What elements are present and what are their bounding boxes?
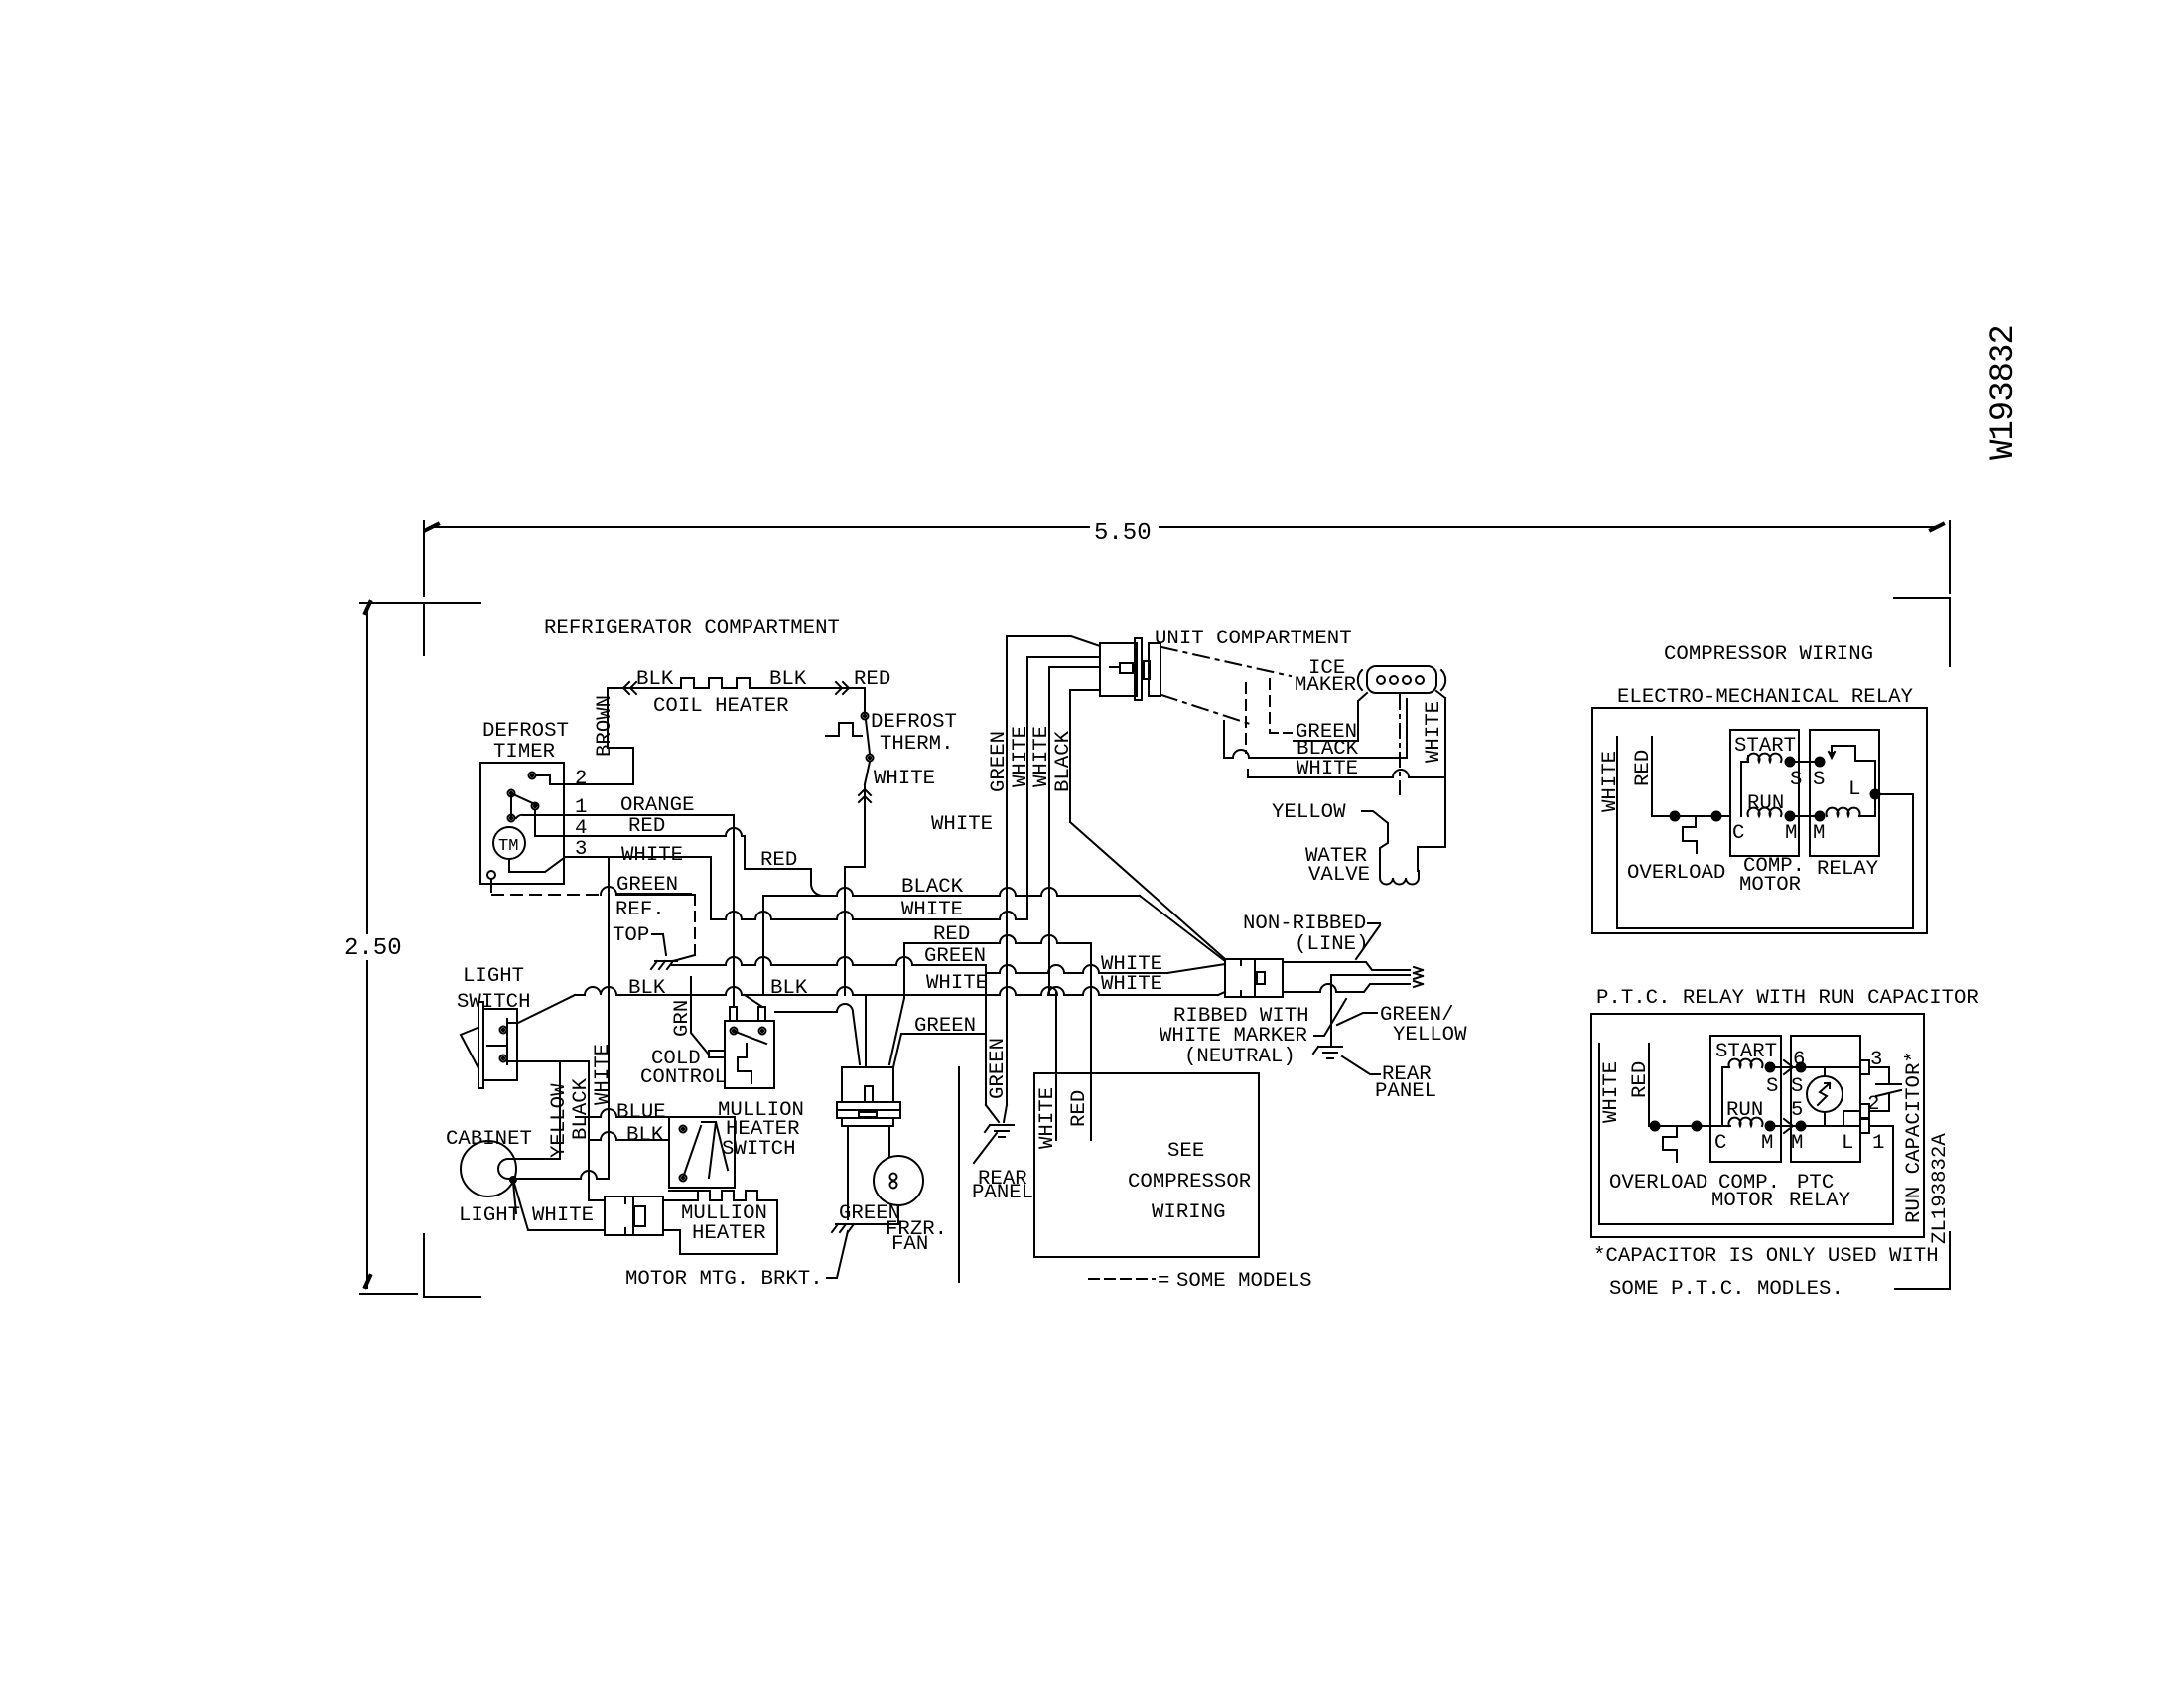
PTC wire S to relay xyxy=(1770,1066,1801,1068)
wire RED row xyxy=(904,935,1091,943)
wire fan motor bottom lead xyxy=(852,1205,898,1224)
corner mark top-right xyxy=(1894,598,1950,666)
svg-text:RED: RED xyxy=(1629,1061,1652,1098)
defrost thermostat terminal top xyxy=(862,713,869,720)
svg-text:TIMER: TIMER xyxy=(493,741,555,764)
svg-text:WHITE: WHITE xyxy=(621,844,683,867)
wire line cord top xyxy=(1283,962,1410,970)
PTC run winding xyxy=(1729,1118,1763,1126)
PTC terminal M relay xyxy=(1797,1122,1806,1131)
svg-text:TM: TM xyxy=(498,837,518,856)
wire GREEN drop to rear panel ground xyxy=(985,965,987,1105)
svg-text:L: L xyxy=(1848,778,1860,801)
svg-text:5: 5 xyxy=(1791,1099,1803,1122)
water valve coil xyxy=(1380,871,1419,885)
svg-text:2: 2 xyxy=(575,768,587,790)
cabinet light bulb xyxy=(461,1141,516,1196)
wire GREEN row xyxy=(671,957,986,965)
mullion heater plug xyxy=(605,1196,633,1235)
EM start winding left lead xyxy=(1741,762,1748,816)
svg-text:SEE: SEE xyxy=(1167,1140,1204,1163)
wire WHITE row 4 to line plug xyxy=(988,965,1167,973)
EM start winding xyxy=(1748,754,1782,762)
svg-text:BLK: BLK xyxy=(769,668,807,691)
wire WHITE cabinet light to mullion plug xyxy=(513,1180,605,1230)
cold control terminal left xyxy=(731,1028,738,1035)
svg-text:M: M xyxy=(1813,822,1825,845)
svg-text:OVERLOAD: OVERLOAD xyxy=(1627,862,1725,885)
EM relay outer box xyxy=(1592,708,1927,933)
wire RED pin4 xyxy=(535,810,823,896)
svg-text:COMPRESSOR WIRING: COMPRESSOR WIRING xyxy=(1664,643,1873,666)
svg-text:HEATER: HEATER xyxy=(692,1222,766,1245)
wire BLK to mullion switch xyxy=(589,1132,669,1140)
harness elbow to black wire xyxy=(1223,721,1225,757)
svg-text:MOTOR: MOTOR xyxy=(1711,1190,1773,1212)
svg-text:2.50: 2.50 xyxy=(344,935,402,962)
wire WHITE drop into compressor box xyxy=(1055,993,1057,1140)
PTC wire M to relay xyxy=(1770,1125,1801,1127)
svg-text:WHITE: WHITE xyxy=(1101,973,1162,996)
cold control terminal right xyxy=(759,1028,766,1035)
PTC pin 1 xyxy=(1860,1119,1869,1133)
PTC overload protector xyxy=(1663,1126,1677,1162)
svg-text:BLK: BLK xyxy=(636,668,674,691)
PTC terminal S relay xyxy=(1797,1063,1806,1072)
svg-text:LIGHT: LIGHT xyxy=(463,965,524,988)
PTC wire M to pin 1 xyxy=(1801,1125,1860,1127)
EM relay coil xyxy=(1827,808,1860,816)
svg-text:M: M xyxy=(1791,1132,1803,1155)
svg-text:REF.: REF. xyxy=(615,899,665,921)
PTC terminal M motor xyxy=(1766,1122,1775,1131)
svg-text:WHITE: WHITE xyxy=(1010,726,1032,787)
wire from light switch top terminal xyxy=(507,995,575,1023)
svg-text:NON-RIBBED: NON-RIBBED xyxy=(1243,913,1366,935)
svg-text:GREEN: GREEN xyxy=(988,731,1011,792)
svg-text:COIL HEATER: COIL HEATER xyxy=(653,695,789,718)
svg-text:WHITE: WHITE xyxy=(1600,1061,1623,1123)
harness dashed diagonal top xyxy=(1161,647,1291,676)
timer terminal contact C xyxy=(508,815,515,822)
svg-text:RELAY: RELAY xyxy=(1789,1190,1851,1212)
svg-text:ELECTRO-MECHANICAL RELAY: ELECTRO-MECHANICAL RELAY xyxy=(1617,686,1914,709)
svg-text:BROWN: BROWN xyxy=(594,695,616,757)
timer terminal contact B xyxy=(532,803,539,810)
PTC run capacitor symbol xyxy=(1876,1083,1901,1085)
svg-text:CABINET: CABINET xyxy=(446,1128,532,1151)
mullion heater switch box xyxy=(669,1117,735,1188)
EM terminal S motor xyxy=(1786,758,1795,767)
mullion switch terminal top xyxy=(680,1126,687,1133)
cold control box xyxy=(725,1021,774,1088)
svg-text:WHITE: WHITE xyxy=(592,1044,614,1105)
EM terminal M relay xyxy=(1816,812,1825,821)
EM junction dot 2 xyxy=(1712,812,1721,821)
dimension extension line right xyxy=(1949,521,1951,593)
wire YELLOW light switch to cabinet light xyxy=(507,1061,589,1159)
cold control switch arm xyxy=(736,1032,766,1044)
wire cabinet light top xyxy=(508,1158,559,1160)
svg-text:WHITE: WHITE xyxy=(1599,751,1622,812)
svg-text:YELLOW: YELLOW xyxy=(548,1083,571,1158)
svg-text:GREEN: GREEN xyxy=(924,945,986,968)
svg-text:L: L xyxy=(1842,1132,1853,1155)
EM comp motor box xyxy=(1730,730,1799,856)
svg-text:LIGHT: LIGHT xyxy=(459,1204,520,1227)
harness dashed vertical to water valve xyxy=(1399,695,1401,794)
EM relay box xyxy=(1810,730,1879,856)
wire line cord bottom xyxy=(1283,984,1410,992)
EM terminal M motor xyxy=(1786,812,1795,821)
svg-text:ZL193832A: ZL193832A xyxy=(1929,1133,1952,1244)
wire GREEN/YELLOW drop xyxy=(1330,975,1332,1047)
timer case ground circle xyxy=(487,871,495,879)
svg-text:RED: RED xyxy=(1632,750,1655,786)
svg-text:SOME MODELS: SOME MODELS xyxy=(1176,1270,1312,1293)
svg-text:FAN: FAN xyxy=(891,1233,928,1256)
ground ref top chassis xyxy=(655,960,677,962)
svg-text:MOTOR: MOTOR xyxy=(1739,874,1801,897)
mullion switch arm xyxy=(684,1126,701,1175)
PTC wire capacitor to pin 2 xyxy=(1869,1093,1889,1111)
svg-text:(NEUTRAL): (NEUTRAL) xyxy=(1184,1046,1296,1068)
wire dashed drop to ref-top ground xyxy=(694,895,696,955)
svg-text:WHITE: WHITE xyxy=(532,1204,594,1227)
svg-text:*CAPACITOR IS ONLY USED WITH: *CAPACITOR IS ONLY USED WITH xyxy=(1593,1245,1939,1268)
wire cabinet light bottom xyxy=(510,1171,609,1179)
EM wire RED xyxy=(1652,737,1730,816)
svg-text:S: S xyxy=(1790,769,1802,791)
fan motor circle xyxy=(874,1156,923,1205)
ground rear panel right xyxy=(1318,1046,1342,1048)
PTC thermistor leads xyxy=(1824,1067,1826,1076)
svg-text:5.50: 5.50 xyxy=(1094,520,1152,547)
defrost thermostat terminal bottom xyxy=(867,755,874,762)
svg-text:RED: RED xyxy=(854,668,890,691)
EM terminal L xyxy=(1871,790,1880,799)
wire BLACK bus xyxy=(1070,690,1100,822)
PTC entry mark 5 xyxy=(1784,1119,1793,1133)
svg-text:DEFROST: DEFROST xyxy=(871,711,957,734)
wire ORANGE pin1 xyxy=(516,815,524,818)
wire BLUE to mullion switch xyxy=(576,1109,669,1117)
defrost timer box xyxy=(480,763,564,884)
svg-text:SWITCH: SWITCH xyxy=(722,1138,796,1161)
svg-text:BLUE: BLUE xyxy=(616,1101,666,1124)
cold control left tab xyxy=(709,1051,725,1057)
ground motor mounting bracket xyxy=(836,1223,858,1225)
mullion switch flag xyxy=(702,1122,728,1178)
wire BLACK row xyxy=(763,888,1140,896)
svg-text:VALVE: VALVE xyxy=(1308,864,1370,887)
corner mark top-left xyxy=(360,603,480,655)
PTC wire pin2 internal xyxy=(1843,1111,1860,1126)
svg-text:BLACK: BLACK xyxy=(1052,730,1075,792)
unit connector body xyxy=(1100,643,1137,696)
wire WHITE row xyxy=(711,912,1027,919)
dimension line 5.50 horizontal xyxy=(430,526,1089,528)
svg-text:WHITE: WHITE xyxy=(926,972,988,995)
PTC junction dot 2 xyxy=(1693,1122,1702,1131)
power plug body xyxy=(1225,959,1255,997)
svg-text:RED: RED xyxy=(1068,1090,1091,1127)
svg-text:RED: RED xyxy=(933,923,970,946)
wire riser black row to blk wire xyxy=(762,896,764,995)
PTC wire RED xyxy=(1649,1044,1730,1126)
svg-text:C: C xyxy=(1714,1132,1726,1155)
svg-text:ORANGE: ORANGE xyxy=(620,794,695,817)
svg-text:RELAY: RELAY xyxy=(1817,858,1879,881)
svg-text:P.T.C. RELAY WITH RUN CAPACITO: P.T.C. RELAY WITH RUN CAPACITOR xyxy=(1596,987,1979,1010)
defrost thermostat switch arm xyxy=(866,720,870,754)
timer terminal 2 xyxy=(529,773,536,779)
harness dashed vertical 2 xyxy=(1269,679,1271,733)
wire BLK left segment with chevrons xyxy=(608,687,681,689)
svg-text:WHITE: WHITE xyxy=(1423,701,1445,763)
svg-text:PANEL: PANEL xyxy=(972,1182,1033,1204)
wire WHITE bus 2 xyxy=(1049,667,1100,995)
dimension line 2.50 vertical xyxy=(366,608,368,933)
svg-text:RED: RED xyxy=(628,815,665,838)
svg-text:UNIT COMPARTMENT: UNIT COMPARTMENT xyxy=(1155,628,1352,650)
svg-text:S: S xyxy=(1813,769,1825,791)
light switch terminal top xyxy=(500,1027,507,1034)
wire RED drop to defrost thermostat xyxy=(864,688,866,713)
wire GREEN from fan plug xyxy=(893,1034,986,1067)
light switch body xyxy=(478,1002,483,1088)
svg-text:PANEL: PANEL xyxy=(1375,1080,1436,1103)
svg-text:BLK: BLK xyxy=(628,977,666,1000)
wire BLACK drop to mullion area xyxy=(589,1061,605,1200)
EM overload protector xyxy=(1683,816,1697,853)
svg-text:1: 1 xyxy=(1872,1132,1884,1155)
mullion heater element loop xyxy=(663,1191,777,1254)
PTC relay box xyxy=(1791,1036,1860,1162)
wire WHITE ice maker vertical to water valve xyxy=(1418,698,1445,871)
svg-text:MAKER: MAKER xyxy=(1295,674,1356,697)
svg-text:WIRING: WIRING xyxy=(1152,1201,1226,1224)
EM relay armature xyxy=(1832,746,1875,792)
EM junction dot 1 xyxy=(1671,812,1680,821)
PTC thermistor circle xyxy=(1807,1076,1843,1112)
cold control pin 1 xyxy=(730,1007,737,1021)
dimension extension line left xyxy=(423,521,425,596)
svg-text:(LINE): (LINE) xyxy=(1295,933,1369,956)
svg-text:BLK: BLK xyxy=(626,1124,664,1147)
wire BLACK bus diagonal to plug xyxy=(1070,822,1225,959)
PTC pin 2 xyxy=(1860,1104,1869,1118)
wire line cord middle xyxy=(1331,974,1410,976)
PTC terminal S motor xyxy=(1766,1063,1775,1072)
svg-text:TOP: TOP xyxy=(613,924,649,947)
cold control internal contour xyxy=(738,1044,751,1083)
svg-text:RED: RED xyxy=(760,849,797,872)
EM run winding xyxy=(1748,808,1782,816)
svg-text:RUN: RUN xyxy=(1747,792,1784,815)
timer switch arm xyxy=(513,794,537,805)
PTC start winding xyxy=(1729,1059,1763,1067)
svg-text:YELLOW: YELLOW xyxy=(1393,1024,1467,1047)
wire into fan plug left diagonal xyxy=(775,1004,860,1064)
mullion switch terminal bottom xyxy=(680,1175,687,1182)
ground rear panel left xyxy=(990,1124,1014,1126)
corner mark bottom-left xyxy=(424,1234,480,1297)
svg-text:M: M xyxy=(1761,1132,1773,1155)
EM wire M to relay xyxy=(1790,815,1820,817)
svg-text:SOME P.T.C. MODLES.: SOME P.T.C. MODLES. xyxy=(1609,1278,1843,1301)
svg-text:S: S xyxy=(1791,1075,1803,1098)
PTC wire top to pin 3 xyxy=(1801,1066,1860,1068)
wire GRN to cold control xyxy=(691,977,709,1055)
wire GREEN bus xyxy=(1007,636,1100,1068)
wire WHITE vertical center-left xyxy=(608,857,610,1179)
freezer fan plug connector xyxy=(842,1067,893,1102)
wire BROWN from coil heater to timer terminal 2 xyxy=(537,688,633,784)
wire BLK-WHITE row 5 to plug xyxy=(575,987,1218,995)
svg-text:BLK: BLK xyxy=(770,977,808,1000)
wire fan plug left leg to ground xyxy=(847,1126,849,1219)
PTC pin 3 xyxy=(1860,1060,1869,1074)
PTC entry mark 6 xyxy=(1784,1060,1793,1074)
wire GREEN dashed from timer xyxy=(492,894,601,896)
EM wire S to relay xyxy=(1790,761,1820,763)
timer motor TM xyxy=(493,827,525,859)
svg-text:GREEN: GREEN xyxy=(914,1015,976,1038)
svg-text:MOTOR MTG. BRKT.: MOTOR MTG. BRKT. xyxy=(625,1268,823,1291)
light switch wedge xyxy=(461,1028,478,1068)
wire cold control pin2 riser xyxy=(745,995,762,1007)
boundary line some models xyxy=(958,1067,960,1282)
svg-text:W193832: W193832 xyxy=(1985,325,2023,460)
wire GREEN bus drop right arm xyxy=(1006,1068,1008,1105)
svg-text:BLACK: BLACK xyxy=(570,1077,593,1140)
note bracket xyxy=(1895,1232,1950,1289)
EM terminal S relay xyxy=(1816,758,1825,767)
cold control pin 2 xyxy=(758,1007,765,1021)
PTC wire pin3 to capacitor xyxy=(1869,1067,1889,1082)
PTC wire pin1 to white return xyxy=(1869,1125,1893,1127)
svg-text:WHITE: WHITE xyxy=(1036,1087,1059,1149)
defrost thermostat element xyxy=(826,723,862,736)
wire RED drop into compressor box xyxy=(1090,943,1092,1140)
PTC wire WHITE xyxy=(1599,1044,1893,1224)
svg-text:WHITE: WHITE xyxy=(874,768,935,790)
ice maker connector xyxy=(1367,666,1436,693)
svg-text:YELLOW: YELLOW xyxy=(1272,801,1346,824)
wire fan plug right leg xyxy=(888,1126,890,1157)
svg-text:M: M xyxy=(1785,822,1797,845)
svg-text:DEFROST: DEFROST xyxy=(482,720,569,743)
svg-text:REFRIGERATOR COMPARTMENT: REFRIGERATOR COMPARTMENT xyxy=(544,617,840,639)
svg-text:COMPRESSOR: COMPRESSOR xyxy=(1128,1171,1251,1194)
svg-text:RUN CAPACITOR*: RUN CAPACITOR* xyxy=(1903,1051,1926,1223)
svg-text:C: C xyxy=(1732,822,1744,845)
svg-text:SWITCH: SWITCH xyxy=(457,991,531,1014)
wire into fan plug from white vertical xyxy=(865,995,867,1067)
harness dashed vertical 1 xyxy=(1245,683,1247,753)
wire BLK right segment with chevrons xyxy=(750,687,865,689)
PTC start winding left lead xyxy=(1722,1067,1729,1126)
svg-text:CONTROL: CONTROL xyxy=(640,1066,727,1089)
light switch terminal bottom xyxy=(500,1055,507,1062)
svg-text:BLACK: BLACK xyxy=(901,876,964,899)
svg-text:WHITE MARKER: WHITE MARKER xyxy=(1160,1025,1307,1048)
PTC outer box xyxy=(1591,1014,1924,1237)
svg-text:THERM.: THERM. xyxy=(880,733,954,756)
compressor wiring reference box xyxy=(1034,1073,1259,1257)
svg-text:WHITE: WHITE xyxy=(901,899,963,921)
wire WHITE pin3 xyxy=(564,857,711,919)
svg-text:S: S xyxy=(1766,1075,1778,1098)
svg-text:WHITE: WHITE xyxy=(1030,726,1053,787)
coil heater element xyxy=(681,678,750,688)
legend dashed SOME MODELS xyxy=(1089,1278,1155,1280)
PTC junction dot 1 xyxy=(1651,1122,1660,1131)
harness dashed diagonal bottom xyxy=(1161,695,1253,725)
wire WHITE bus 1 xyxy=(1027,657,1100,919)
wire WHITE from defrost thermostat down xyxy=(865,762,870,784)
timer terminal contact A xyxy=(508,790,515,797)
svg-text:WHITE: WHITE xyxy=(931,813,993,836)
PTC comp motor box xyxy=(1710,1036,1781,1162)
svg-text:OVERLOAD: OVERLOAD xyxy=(1609,1172,1707,1195)
EM wire WHITE xyxy=(1617,737,1913,928)
svg-text:=: = xyxy=(1158,1270,1169,1293)
